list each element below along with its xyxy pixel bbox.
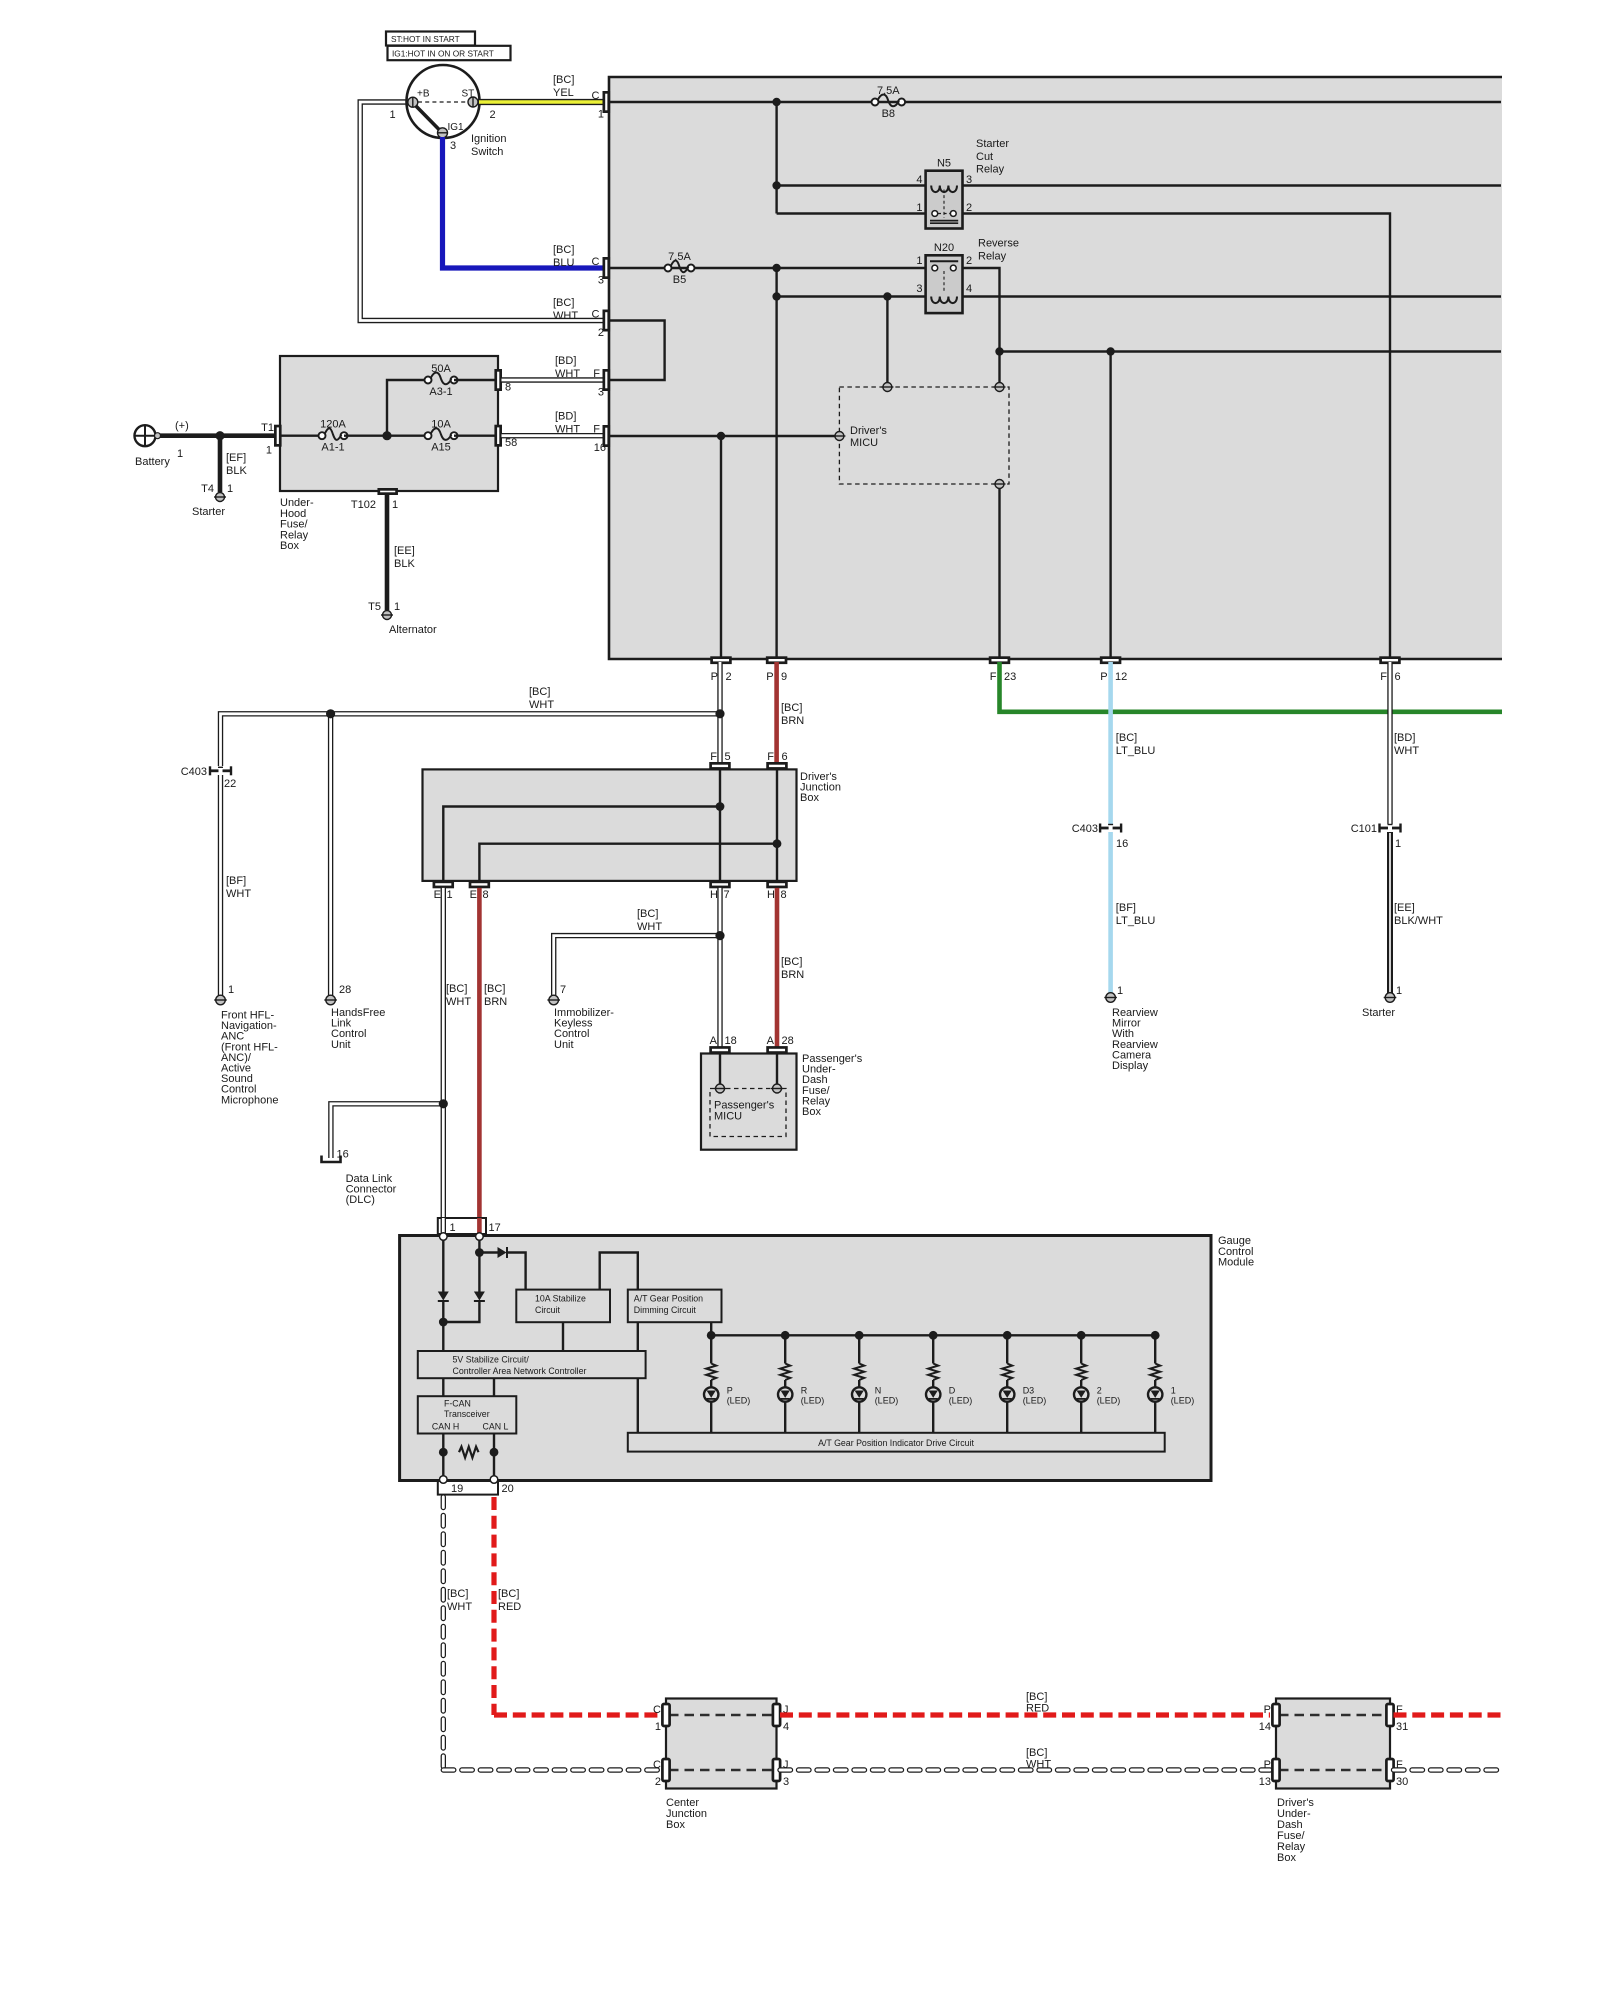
relay N20 coil — [931, 297, 957, 304]
junction node above P12 — [1106, 347, 1114, 355]
wire up to 50A fuse — [387, 380, 428, 436]
junction node pin17 — [475, 1248, 484, 1257]
svg-text:28: 28 — [339, 984, 351, 996]
wire [BD] WHT pin 8 to F3 — [502, 377, 605, 382]
svg-text:T4: T4 — [201, 483, 214, 495]
relay N5 contact points — [932, 211, 938, 217]
svg-text:1: 1 — [394, 601, 400, 613]
svg-text:WHT: WHT — [637, 921, 662, 933]
wire [BD] GRN from F23 — [1000, 662, 1503, 712]
svg-text:F: F — [593, 368, 600, 380]
svg-text:P: P — [766, 671, 773, 683]
svg-text:BLK/WHT: BLK/WHT — [1394, 915, 1443, 927]
wire [BD] WHT pin 58 to F16 — [502, 433, 605, 438]
svg-text:C: C — [653, 1704, 661, 1716]
svg-text:BRN: BRN — [781, 715, 804, 727]
svg-text:2: 2 — [490, 109, 496, 121]
svg-text:WHT: WHT — [555, 424, 580, 436]
svg-text:(LED): (LED) — [801, 1396, 825, 1406]
wire [BC] WHT dashed pin 19 to center junction box C2 — [441, 1497, 446, 1770]
svg-text:[BC]: [BC] — [553, 297, 574, 309]
terminating resistor between CAN H and CAN L — [459, 1447, 479, 1458]
junction node LED 2 branch — [1077, 1331, 1086, 1340]
svg-text:6: 6 — [782, 751, 788, 763]
svg-text:1: 1 — [916, 255, 922, 267]
svg-text:A: A — [710, 1035, 718, 1047]
wire [BC] LT_BLU from P12 to C403 — [1108, 662, 1113, 824]
internal dashed path C2-J3 — [669, 1769, 773, 1772]
svg-text:20: 20 — [502, 1483, 514, 1495]
pin 20 circle — [490, 1476, 498, 1484]
5V stabilize circuit box — [418, 1351, 646, 1378]
svg-text:Relay: Relay — [976, 164, 1005, 176]
svg-text:19: 19 — [451, 1483, 463, 1495]
relay N20 contact bar — [930, 260, 958, 262]
connector C101 pin 1 — [1378, 824, 1380, 833]
svg-text:Driver's: Driver's — [850, 425, 887, 437]
under-hood fuse/relay box — [280, 356, 498, 491]
wire LED P branch upper — [710, 1335, 712, 1363]
svg-text:9: 9 — [781, 671, 787, 683]
wire fuse A1-1 to junction — [344, 435, 428, 437]
wire [BC] YEL from ST to C1 — [478, 99, 606, 105]
svg-text:A1-1: A1-1 — [321, 442, 344, 454]
passenger MICU terminal right — [773, 1084, 782, 1093]
svg-text:3: 3 — [450, 140, 456, 152]
svg-text:1: 1 — [1117, 985, 1123, 997]
wire pin1 white into connector — [441, 1218, 446, 1233]
internal wire F5 to H7 — [719, 769, 721, 881]
pin 1 circle — [440, 1233, 448, 1241]
svg-text:[BC]: [BC] — [553, 74, 574, 86]
svg-text:1: 1 — [655, 1721, 661, 1733]
svg-text:BRN: BRN — [484, 996, 507, 1008]
wire diode D2 to junction — [447, 1301, 479, 1322]
LED 1 — [1148, 1387, 1162, 1401]
svg-text:WHT: WHT — [1394, 745, 1419, 757]
svg-text:ST: ST — [462, 89, 475, 100]
svg-text:C403: C403 — [181, 766, 207, 778]
LED N — [852, 1387, 866, 1401]
svg-text:5V Stabilize Circuit/: 5V Stabilize Circuit/ — [453, 1355, 530, 1365]
wire N5 pin 2 to F6 drop — [963, 214, 1391, 660]
wire LED 2 branch upper — [1080, 1335, 1082, 1363]
svg-text:1: 1 — [598, 109, 604, 121]
junction node LED P branch — [707, 1331, 716, 1340]
svg-text:Starter: Starter — [976, 138, 1009, 150]
svg-text:[BC]: [BC] — [498, 1588, 519, 1600]
svg-text:10A: 10A — [431, 419, 451, 431]
svg-text:N: N — [875, 1386, 882, 1396]
wire dimming feed through to drive circuit — [637, 1378, 639, 1433]
wire pin17 brn into connector — [477, 1218, 482, 1233]
connector P12 — [1101, 658, 1120, 663]
wire T102 to alternator thick — [385, 495, 390, 610]
wire battery to T1 thick — [160, 433, 274, 438]
svg-text:WHT: WHT — [446, 996, 471, 1008]
wire LED D3 branch upper — [1006, 1335, 1008, 1363]
wire to N20 pin 3 — [777, 295, 926, 297]
svg-text:Dimming Circuit: Dimming Circuit — [634, 1305, 697, 1315]
svg-text:N20: N20 — [934, 242, 954, 254]
terminal T4 starter — [216, 493, 225, 502]
svg-text:C: C — [592, 90, 600, 102]
wire LED 2 to drive circuit — [1080, 1402, 1082, 1433]
wire corner to N5 pin 1 — [777, 212, 926, 214]
note box ST:HOT IN START — [386, 32, 475, 46]
center junction box — [666, 1699, 777, 1789]
svg-text:1: 1 — [227, 483, 233, 495]
relay N5 contact bar — [930, 220, 958, 222]
svg-text:B5: B5 — [673, 274, 686, 286]
svg-text:3: 3 — [598, 387, 604, 399]
wire [BC] WHT bus from microphone branch to P2 — [221, 714, 721, 766]
svg-text:31: 31 — [1396, 1721, 1408, 1733]
svg-text:Starter: Starter — [192, 506, 225, 518]
svg-text:D3: D3 — [1023, 1386, 1035, 1396]
svg-text:[BC]: [BC] — [1026, 1747, 1047, 1759]
MICU terminal top right — [995, 383, 1004, 392]
wire down to P2 — [720, 436, 722, 659]
svg-text:[EE]: [EE] — [1394, 902, 1415, 914]
wire [BC] WHT dashed F30 to right — [1394, 1767, 1503, 1772]
fuse B5 7.5A — [667, 267, 669, 269]
wire LED R to drive circuit — [784, 1402, 786, 1433]
MICU terminal bottom — [995, 480, 1004, 489]
switch lever +B to IG1 — [415, 105, 441, 131]
LED D — [926, 1387, 940, 1401]
resistor for LED D — [928, 1364, 938, 1381]
svg-text:1: 1 — [392, 499, 398, 511]
connector J3 center junction — [773, 1759, 780, 1781]
svg-text:BRN: BRN — [781, 969, 804, 981]
passenger's under-dash fuse/relay box — [701, 1054, 797, 1150]
svg-text:7: 7 — [724, 889, 730, 901]
junction node above P2 — [717, 432, 725, 440]
internal dashed path P14-F31 — [1279, 1714, 1387, 1717]
svg-text:T102: T102 — [351, 499, 376, 511]
junction node internal F5 — [716, 802, 725, 811]
internal wire to E1 — [443, 807, 720, 881]
svg-text:2: 2 — [966, 202, 972, 214]
svg-text:C: C — [592, 256, 600, 268]
wire blue-feed from C3 to relay N20 pin 1 — [609, 267, 926, 269]
wire A18 to passenger MICU — [719, 1054, 721, 1085]
wire A28 to passenger MICU — [776, 1054, 778, 1085]
svg-text:[BD]: [BD] — [555, 355, 576, 367]
svg-text:A3-1: A3-1 — [429, 386, 452, 398]
junction node on C3 bus — [772, 264, 780, 272]
svg-text:C: C — [592, 309, 600, 321]
connector P9 — [767, 658, 786, 663]
svg-text:RED: RED — [1026, 1703, 1049, 1715]
svg-text:BLK: BLK — [394, 558, 415, 570]
terminal starter pin 1 — [1385, 993, 1395, 1003]
svg-text:14: 14 — [1259, 1721, 1271, 1733]
svg-text:Switch: Switch — [471, 146, 503, 158]
fuse A1-1 120A — [321, 435, 323, 437]
svg-text:P: P — [1264, 1704, 1271, 1716]
data link connector pin 16 — [322, 1156, 341, 1163]
svg-text:1: 1 — [177, 448, 183, 460]
connector A28 — [768, 1047, 787, 1052]
svg-text:7.5A: 7.5A — [668, 251, 691, 263]
svg-text:Ignition: Ignition — [471, 133, 506, 145]
junction node on N20 pin2 drop — [995, 347, 1003, 355]
wire [BC] WHT H7 down to A18 — [717, 888, 722, 1047]
svg-text:Reverse: Reverse — [978, 238, 1019, 250]
svg-text:6: 6 — [1395, 671, 1401, 683]
svg-text:Box: Box — [802, 1106, 821, 1118]
junction node immobilizer branch — [715, 931, 724, 940]
svg-text:Box: Box — [666, 1819, 685, 1831]
svg-text:(DLC): (DLC) — [346, 1194, 375, 1206]
svg-text:Circuit: Circuit — [535, 1305, 560, 1315]
wire 5V box to F-CAN CAN L — [493, 1378, 495, 1396]
svg-text:1: 1 — [266, 445, 272, 457]
resistor for LED P — [706, 1364, 716, 1381]
svg-text:BLK: BLK — [226, 465, 247, 477]
svg-text:16: 16 — [1116, 838, 1128, 850]
svg-text:7: 7 — [560, 984, 566, 996]
svg-text:[BC]: [BC] — [1026, 1691, 1047, 1703]
fuse A3-1 50A — [427, 379, 429, 381]
svg-text:H: H — [710, 889, 718, 901]
svg-text:[BD]: [BD] — [555, 411, 576, 423]
svg-text:P: P — [1264, 1759, 1271, 1771]
svg-text:Transceiver: Transceiver — [444, 1409, 490, 1419]
MICU terminal left — [835, 432, 844, 441]
junction node LED N branch — [855, 1331, 864, 1340]
connector H8 — [768, 882, 787, 887]
svg-text:[BC]: [BC] — [781, 956, 802, 968]
MICU terminal top left — [883, 383, 892, 392]
svg-text:[BC]: [BC] — [484, 983, 505, 995]
svg-text:8: 8 — [483, 889, 489, 901]
wire resistor to LED D3 — [1006, 1380, 1008, 1387]
wire [BC] BRN H8 down to A28 — [775, 888, 780, 1047]
connector A18 — [711, 1047, 730, 1052]
driver's MICU dashed box — [839, 387, 1009, 484]
svg-text:Display: Display — [1112, 1060, 1149, 1072]
wire resistor to LED 2 — [1080, 1380, 1082, 1387]
svg-text:F: F — [1380, 671, 1387, 683]
svg-text:Module: Module — [1218, 1257, 1254, 1269]
resistor for LED D3 — [1002, 1364, 1012, 1381]
svg-text:A/T Gear Position Indicator Dr: A/T Gear Position Indicator Drive Circui… — [818, 1438, 974, 1448]
connector F6 — [1381, 658, 1400, 663]
svg-text:N5: N5 — [937, 158, 951, 170]
svg-text:C101: C101 — [1351, 823, 1377, 835]
svg-text:[BC]: [BC] — [446, 983, 467, 995]
connector C2 center junction — [662, 1759, 669, 1781]
wire to data link connector — [331, 1104, 443, 1158]
wire [BC] BRN from P9 to F6 of junction box — [774, 662, 779, 762]
junction node on P2 drop — [715, 709, 724, 718]
10A stabilize circuit box — [516, 1290, 610, 1323]
svg-text:3: 3 — [783, 1776, 789, 1788]
svg-text:(LED): (LED) — [875, 1396, 899, 1406]
F-CAN transceiver box — [418, 1396, 517, 1433]
fuse A15 10A — [427, 435, 429, 437]
wire pin1 down to diode D1 — [442, 1240, 444, 1292]
junction node LED D branch — [929, 1331, 938, 1340]
wire white from ignition +B terminal 1 to connector C2 — [360, 102, 604, 321]
wire fuse A15 to pin 58 — [454, 435, 495, 437]
svg-text:F: F — [767, 751, 774, 763]
svg-text:18: 18 — [725, 1035, 737, 1047]
svg-text:2: 2 — [1097, 1386, 1102, 1396]
wire to handsfree link unit — [328, 714, 333, 995]
wire 5V box to F-CAN CAN H — [442, 1378, 444, 1396]
junction node on C1 bus — [772, 98, 780, 106]
relay N20 contact points — [932, 265, 938, 271]
svg-text:C: C — [653, 1759, 661, 1771]
junction node LED D3 branch — [1003, 1331, 1012, 1340]
connector F16 on box edge — [604, 426, 609, 445]
driver's under-dash fuse/relay box bottom — [1276, 1699, 1390, 1789]
wire N20 pin 2 to lower bus — [963, 268, 1000, 383]
ignition switch S1 — [407, 65, 480, 138]
connector T102 — [379, 489, 397, 493]
relay N5 dashed actuator link — [943, 190, 945, 219]
svg-text:A15: A15 — [431, 442, 451, 454]
terminal rearview mirror pin 1 — [1106, 993, 1116, 1003]
svg-text:3: 3 — [598, 275, 604, 287]
svg-text:Cut: Cut — [976, 151, 993, 163]
svg-text:120A: 120A — [320, 419, 346, 431]
svg-text:16: 16 — [337, 1149, 349, 1161]
diode D1 — [438, 1292, 449, 1301]
junction node at N20 coil feed — [772, 292, 780, 300]
svg-text:2: 2 — [966, 255, 972, 267]
wire yellow-feed bus from C1 to box right edge — [609, 101, 1501, 103]
svg-text:[BF]: [BF] — [226, 875, 246, 887]
svg-text:[BC]: [BC] — [1116, 732, 1137, 744]
wire LED 1 branch upper — [1154, 1335, 1156, 1363]
connector F5 — [711, 763, 730, 768]
svg-text:T1: T1 — [261, 422, 274, 434]
relay N20 dashed actuator link — [943, 271, 945, 293]
wire LED N to drive circuit — [858, 1402, 860, 1433]
svg-text:YEL: YEL — [553, 87, 574, 99]
svg-text:+B: +B — [417, 89, 430, 100]
wire N20 pin 4 to box right edge — [963, 295, 1502, 297]
svg-text:Box: Box — [1277, 1852, 1296, 1864]
svg-text:F: F — [593, 424, 600, 436]
internal wire F6 to H8 — [776, 769, 778, 881]
wire junction to 10A stabilize via diode D3 — [479, 1251, 497, 1253]
svg-text:2: 2 — [655, 1776, 661, 1788]
connector pin 58 — [496, 426, 501, 445]
battery — [135, 425, 156, 446]
terminal immobilizer pin 7 — [549, 995, 559, 1005]
wire CAN H down to pin 19 — [442, 1434, 444, 1478]
wire N5 pin 3 to box right edge — [963, 184, 1502, 186]
junction node in fuse box — [382, 431, 391, 440]
svg-text:[BC]: [BC] — [529, 686, 550, 698]
svg-text:RED: RED — [498, 1601, 521, 1613]
connector F3 on box edge — [604, 370, 609, 389]
svg-text:E: E — [434, 889, 441, 901]
svg-text:17: 17 — [489, 1222, 501, 1234]
svg-text:5: 5 — [725, 751, 731, 763]
junction node below diodes — [439, 1318, 448, 1327]
relay N5 starter cut relay — [926, 171, 963, 229]
wire [BF] LT_BLU from C403 to rearview mirror — [1108, 832, 1113, 993]
wire pin17 down to diode D2 — [478, 1240, 480, 1292]
svg-text:4: 4 — [966, 283, 972, 295]
connector C403 pin 16 — [1099, 824, 1101, 833]
connector C403 pin 22 — [209, 766, 211, 775]
wire T1 into fuse box — [281, 435, 322, 437]
svg-text:1: 1 — [447, 889, 453, 901]
module bottom connector pins 19 and 20 — [438, 1481, 498, 1495]
svg-text:P: P — [727, 1386, 733, 1396]
resistor for LED R — [780, 1364, 790, 1381]
svg-text:Starter: Starter — [1362, 1007, 1395, 1019]
connector P2 — [712, 658, 731, 663]
junction node DLC branch — [439, 1099, 448, 1108]
connector E8 — [470, 882, 489, 887]
svg-text:[BD]: [BD] — [1394, 732, 1415, 744]
wire down to starter T4 — [218, 436, 223, 492]
wire diode D3 to 10A box — [508, 1253, 526, 1290]
svg-text:C403: C403 — [1072, 823, 1098, 835]
svg-text:Box: Box — [280, 540, 299, 552]
svg-text:MICU: MICU — [714, 1110, 742, 1122]
svg-text:1: 1 — [228, 984, 234, 996]
svg-text:28: 28 — [782, 1035, 794, 1047]
wire down to driver's MICU terminal — [886, 297, 888, 384]
note box IG1:HOT IN ON OR START — [388, 46, 511, 60]
svg-text:Controller Area Network Contro: Controller Area Network Controller — [453, 1366, 587, 1376]
svg-text:WHT: WHT — [1026, 1759, 1051, 1771]
wire [BC] RED dashed pin 20 to center junction box C1 — [491, 1497, 496, 1715]
resistor for LED 2 — [1076, 1364, 1086, 1381]
svg-text:4: 4 — [916, 174, 922, 186]
svg-text:[BC]: [BC] — [447, 1588, 468, 1600]
svg-text:A: A — [767, 1035, 775, 1047]
svg-text:3: 3 — [966, 174, 972, 186]
svg-text:1: 1 — [1395, 838, 1401, 850]
junction node handsfree branch — [326, 709, 335, 718]
connector F23 — [990, 658, 1009, 663]
svg-text:1: 1 — [916, 202, 922, 214]
wire [BC] WHT dashed J3 to P13 — [780, 1767, 1270, 1772]
A/T gear position indicator drive circuit box — [628, 1433, 1165, 1452]
resistor for LED 1 — [1150, 1364, 1160, 1381]
junction node LED R branch — [781, 1331, 790, 1340]
svg-text:WHT: WHT — [226, 888, 251, 900]
connector C3 on box edge — [604, 258, 609, 277]
connector F6 junction box — [768, 763, 787, 768]
wire LED P to drive circuit — [710, 1402, 712, 1433]
wire [BC] BRN E8 down to gauge module pin 17 — [477, 888, 482, 1218]
dashed line +B to ST — [418, 101, 468, 103]
svg-text:R: R — [801, 1386, 808, 1396]
svg-text:CAN H: CAN H — [432, 1422, 459, 1432]
junction node LED 1 branch — [1151, 1331, 1160, 1340]
connector P14 — [1272, 1704, 1279, 1726]
wire vertical from C1 bus to relay N5 feeds — [775, 102, 777, 214]
svg-text:Unit: Unit — [554, 1039, 574, 1051]
svg-text:WHT: WHT — [447, 1601, 472, 1613]
svg-text:D: D — [949, 1386, 956, 1396]
svg-text:(LED): (LED) — [949, 1396, 973, 1406]
wire fuse A3-1 to pin 8 — [454, 379, 495, 381]
module top connector pins 1 and 17 — [438, 1218, 486, 1234]
